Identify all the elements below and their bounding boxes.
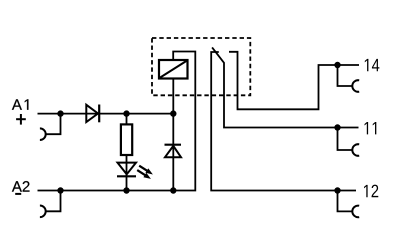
terminal 14 clamp symbol bbox=[338, 65, 360, 92]
terminal A2 clamp symbol bbox=[40, 191, 61, 218]
freewheel diode (parallel to coil) bbox=[165, 114, 182, 191]
dashed relay enclosure bbox=[152, 38, 250, 95]
wire: coil top terminal loop joining A2 rail bbox=[38, 52, 196, 191]
terminal 11 clamp symbol bbox=[338, 128, 360, 156]
wire: LED branch vertical bbox=[126, 114, 128, 191]
node: diode dot on A2 rail bbox=[170, 187, 176, 193]
node: terminal 14 dot bbox=[334, 62, 340, 68]
diode D1 (series, on A1 rail) bbox=[86, 105, 99, 123]
node: LED branch dot on A2 rail bbox=[123, 187, 129, 193]
contact blade / pole, wire to terminal 11 bbox=[212, 47, 358, 127]
label 12 bbox=[364, 185, 378, 198]
node: A2 junction dot bbox=[57, 187, 63, 193]
contact NO fixed terminal, wire to terminal 14 bbox=[229, 52, 359, 110]
wire: coil bottom terminal bbox=[172, 79, 174, 114]
node: terminal 12 dot bbox=[334, 187, 340, 193]
LED bbox=[117, 163, 153, 179]
label - (A2 polarity) bbox=[15, 193, 21, 195]
node: terminal 11 dot bbox=[334, 124, 340, 130]
label 14 bbox=[365, 59, 380, 71]
node: A1 junction dot bbox=[57, 110, 63, 116]
label A2 bbox=[12, 181, 30, 191]
node: resistor branch dot on A1 rail bbox=[123, 110, 129, 116]
label 11 bbox=[365, 122, 377, 134]
terminal 12 clamp symbol bbox=[338, 191, 360, 218]
node: coil/diode dot on A1 rail bbox=[170, 110, 176, 116]
contact NC fixed terminal, wire to terminal 12 bbox=[211, 52, 356, 191]
resistor R1 bbox=[121, 124, 132, 155]
label + (A1 polarity) bbox=[16, 114, 26, 125]
label A1 bbox=[12, 99, 28, 109]
relay coil K1 bbox=[159, 60, 188, 79]
terminal A1 clamp symbol bbox=[40, 114, 61, 140]
wire: A1 rail bbox=[38, 113, 174, 115]
